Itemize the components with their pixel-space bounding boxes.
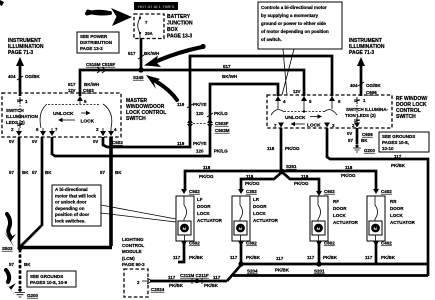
svg-text:PK/BK: PK/BK: [246, 255, 261, 260]
svg-text:A bi-directional: A bi-directional: [55, 187, 88, 192]
svg-text:PAGES 10-8,: PAGES 10-8,: [382, 140, 409, 145]
svg-text:BOX: BOX: [167, 27, 179, 33]
svg-text:OG/BK: OG/BK: [366, 83, 382, 88]
svg-text:BK/WH: BK/WH: [144, 51, 159, 56]
svg-text:PK/LG: PK/LG: [214, 149, 228, 154]
svg-text:BK/WH: BK/WH: [222, 74, 237, 79]
svg-text:117: 117: [307, 255, 315, 260]
svg-text:C302: C302: [246, 241, 257, 246]
svg-text:BATTERY: BATTERY: [167, 14, 191, 20]
svg-text:DOOR: DOOR: [197, 204, 211, 209]
svg-text:BK: BK: [24, 262, 31, 267]
svg-text:PK/OG: PK/OG: [341, 173, 356, 178]
svg-text:PAGE 90-3: PAGE 90-3: [122, 262, 145, 267]
svg-text:C503M: C503M: [215, 128, 230, 133]
svg-text:118: 118: [246, 174, 254, 179]
svg-text:117: 117: [173, 255, 181, 260]
svg-text:ground or power to either side: ground or power to either side: [261, 21, 327, 26]
svg-text:404: 404: [350, 83, 358, 88]
svg-text:120: 120: [196, 149, 204, 154]
svg-text:PAGE 13-3: PAGE 13-3: [167, 34, 192, 40]
svg-text:PK/OG: PK/OG: [199, 174, 214, 179]
svg-text:JUNCTION: JUNCTION: [167, 21, 193, 27]
svg-text:SWITCH ILLUMINA-: SWITCH ILLUMINA-: [346, 107, 388, 112]
svg-text:LOCK: LOCK: [307, 123, 321, 129]
svg-text:PK/OG: PK/OG: [245, 181, 260, 186]
svg-text:LOCK: LOCK: [390, 213, 403, 218]
svg-text:LEDS (2): LEDS (2): [6, 120, 25, 125]
svg-text:SEE GROUNDS: SEE GROUNDS: [382, 134, 415, 139]
svg-text:C606: C606: [366, 90, 377, 95]
svg-text:0V: 0V: [93, 139, 98, 144]
svg-text:CONTROL: CONTROL: [122, 243, 144, 248]
svg-text:DISTRIBUTION: DISTRIBUTION: [80, 40, 112, 45]
svg-text:MODULE: MODULE: [122, 249, 142, 254]
svg-text:PK/BK: PK/BK: [391, 163, 406, 168]
svg-text:PK/BK: PK/BK: [189, 255, 204, 260]
svg-text:by supplying a momentary: by supplying a momentary: [261, 13, 319, 18]
svg-text:S245: S245: [133, 75, 144, 80]
svg-text:PK/BK: PK/BK: [204, 283, 219, 288]
svg-text:C602: C602: [324, 189, 335, 194]
svg-text:DOOR: DOOR: [390, 206, 404, 211]
svg-text:57: 57: [32, 170, 38, 175]
svg-text:S261: S261: [286, 164, 297, 169]
svg-text:C402: C402: [381, 241, 392, 246]
svg-text:PK/LG: PK/LG: [214, 111, 228, 116]
svg-text:BK: BK: [361, 138, 368, 143]
svg-text:LIGHTING: LIGHTING: [122, 237, 144, 242]
svg-text:S204: S204: [247, 269, 258, 274]
svg-text:117: 117: [230, 255, 238, 260]
svg-text:119: 119: [177, 141, 185, 146]
svg-text:C503F: C503F: [215, 121, 229, 126]
svg-text:G200: G200: [364, 148, 376, 153]
svg-text:0V: 0V: [347, 131, 352, 136]
svg-text:G200: G200: [27, 293, 39, 298]
svg-text:SWITCH: SWITCH: [396, 114, 416, 120]
svg-text:of motor depending on position: of motor depending on position: [261, 29, 329, 34]
svg-text:118: 118: [203, 165, 211, 170]
svg-text:ILLUMINATION: ILLUMINATION: [6, 114, 38, 119]
svg-text:BK: BK: [115, 170, 122, 175]
svg-text:S503: S503: [2, 246, 13, 251]
svg-text:ACTUATOR: ACTUATOR: [197, 218, 223, 223]
svg-text:LF: LF: [197, 197, 203, 202]
svg-text:PK/YE: PK/YE: [193, 102, 207, 107]
svg-text:RF: RF: [333, 199, 339, 204]
svg-text:PK/YE: PK/YE: [193, 141, 207, 146]
svg-text:UNLOCK: UNLOCK: [53, 111, 74, 117]
svg-text:57: 57: [9, 170, 15, 175]
svg-text:C515M C515F: C515M C515F: [86, 62, 116, 67]
svg-text:57: 57: [100, 170, 106, 175]
svg-text:PAGE 13-3: PAGE 13-3: [80, 46, 103, 51]
svg-text:lock switches.: lock switches.: [55, 219, 86, 224]
svg-text:LOCK: LOCK: [333, 213, 346, 218]
svg-text:SWITCH: SWITCH: [6, 108, 24, 113]
svg-text:motor that will lock: motor that will lock: [55, 193, 97, 198]
svg-text:TION LEDS (2): TION LEDS (2): [345, 113, 376, 118]
svg-text:SEE GROUNDS: SEE GROUNDS: [30, 274, 63, 279]
svg-text:Controls a bi-directional moto: Controls a bi-directional motor: [261, 5, 327, 10]
svg-text:or unlock door: or unlock door: [55, 200, 87, 205]
svg-text:404: 404: [8, 74, 16, 79]
svg-text:PK/BK: PK/BK: [323, 255, 338, 260]
svg-text:C606: C606: [362, 132, 373, 137]
svg-text:57: 57: [348, 138, 354, 143]
svg-text:PAGES 10-8, 10-9: PAGES 10-8, 10-9: [30, 280, 68, 285]
svg-text:12V: 12V: [68, 88, 76, 93]
svg-text:PK/BK: PK/BK: [169, 283, 184, 288]
svg-text:DOOR: DOOR: [253, 204, 267, 209]
svg-text:of switch.: of switch.: [261, 37, 282, 42]
svg-text:DOOR: DOOR: [333, 206, 347, 211]
svg-text:C402: C402: [381, 189, 392, 194]
svg-text:20A: 20A: [145, 31, 153, 36]
svg-text:PAGE 71-3: PAGE 71-3: [8, 50, 33, 56]
svg-text:C602: C602: [324, 241, 335, 246]
svg-text:RR: RR: [390, 199, 397, 204]
svg-text:117: 117: [365, 255, 373, 260]
svg-text:LOCK: LOCK: [253, 211, 266, 216]
svg-text:117: 117: [394, 154, 402, 159]
svg-text:118: 118: [345, 165, 353, 170]
svg-text:C2024: C2024: [151, 287, 165, 292]
svg-text:517: 517: [128, 51, 136, 56]
svg-text:57: 57: [9, 262, 15, 267]
svg-text:LOCK: LOCK: [81, 119, 95, 125]
svg-text:UNLOCK: UNLOCK: [285, 115, 306, 121]
svg-text:PK/OG: PK/OG: [285, 146, 300, 151]
svg-text:517: 517: [68, 82, 76, 87]
svg-text:117: 117: [276, 256, 284, 261]
svg-text:BK: BK: [45, 170, 52, 175]
svg-text:C302: C302: [246, 189, 257, 194]
svg-text:PK/BK: PK/BK: [381, 255, 396, 260]
svg-text:SEE POWER: SEE POWER: [80, 34, 108, 39]
svg-text:position of door: position of door: [55, 212, 89, 217]
svg-text:0V: 0V: [32, 139, 37, 144]
svg-text:PK/BK: PK/BK: [275, 268, 290, 273]
svg-text:118: 118: [301, 174, 309, 179]
svg-text:117: 117: [213, 275, 221, 280]
svg-text:depending on: depending on: [55, 206, 85, 211]
svg-text:517: 517: [223, 64, 231, 69]
svg-text:BK: BK: [22, 170, 29, 175]
svg-text:HOT AT ALL TIMES: HOT AT ALL TIMES: [138, 4, 175, 9]
svg-text:OG/BK: OG/BK: [25, 74, 41, 79]
svg-text:SWITCH: SWITCH: [126, 116, 146, 122]
svg-text:ACTUATOR: ACTUATOR: [390, 220, 416, 225]
svg-text:C502: C502: [189, 241, 200, 246]
svg-text:ACTUATOR: ACTUATOR: [333, 220, 359, 225]
svg-text:0V: 0V: [9, 139, 14, 144]
svg-text:PAGE 71-3: PAGE 71-3: [349, 50, 374, 56]
svg-text:C502: C502: [189, 189, 200, 194]
svg-text:119: 119: [177, 102, 185, 107]
svg-text:120: 120: [196, 111, 204, 116]
svg-text:118: 118: [267, 146, 275, 151]
svg-text:LOCK: LOCK: [197, 211, 210, 216]
svg-text:10-10: 10-10: [382, 146, 394, 151]
svg-text:BK/WH: BK/WH: [84, 82, 99, 87]
svg-text:C503: C503: [83, 88, 94, 93]
svg-text:117: 117: [168, 275, 176, 280]
svg-text:LR: LR: [253, 197, 260, 202]
svg-text:S201: S201: [314, 269, 325, 274]
svg-text:C211M C211F: C211M C211F: [180, 273, 209, 278]
svg-text:ACTUATOR: ACTUATOR: [253, 218, 279, 223]
svg-text:C503: C503: [112, 140, 123, 145]
svg-text:12V: 12V: [293, 89, 301, 94]
svg-text:PK/OG: PK/OG: [294, 181, 309, 186]
svg-text:(LCM): (LCM): [122, 256, 135, 261]
